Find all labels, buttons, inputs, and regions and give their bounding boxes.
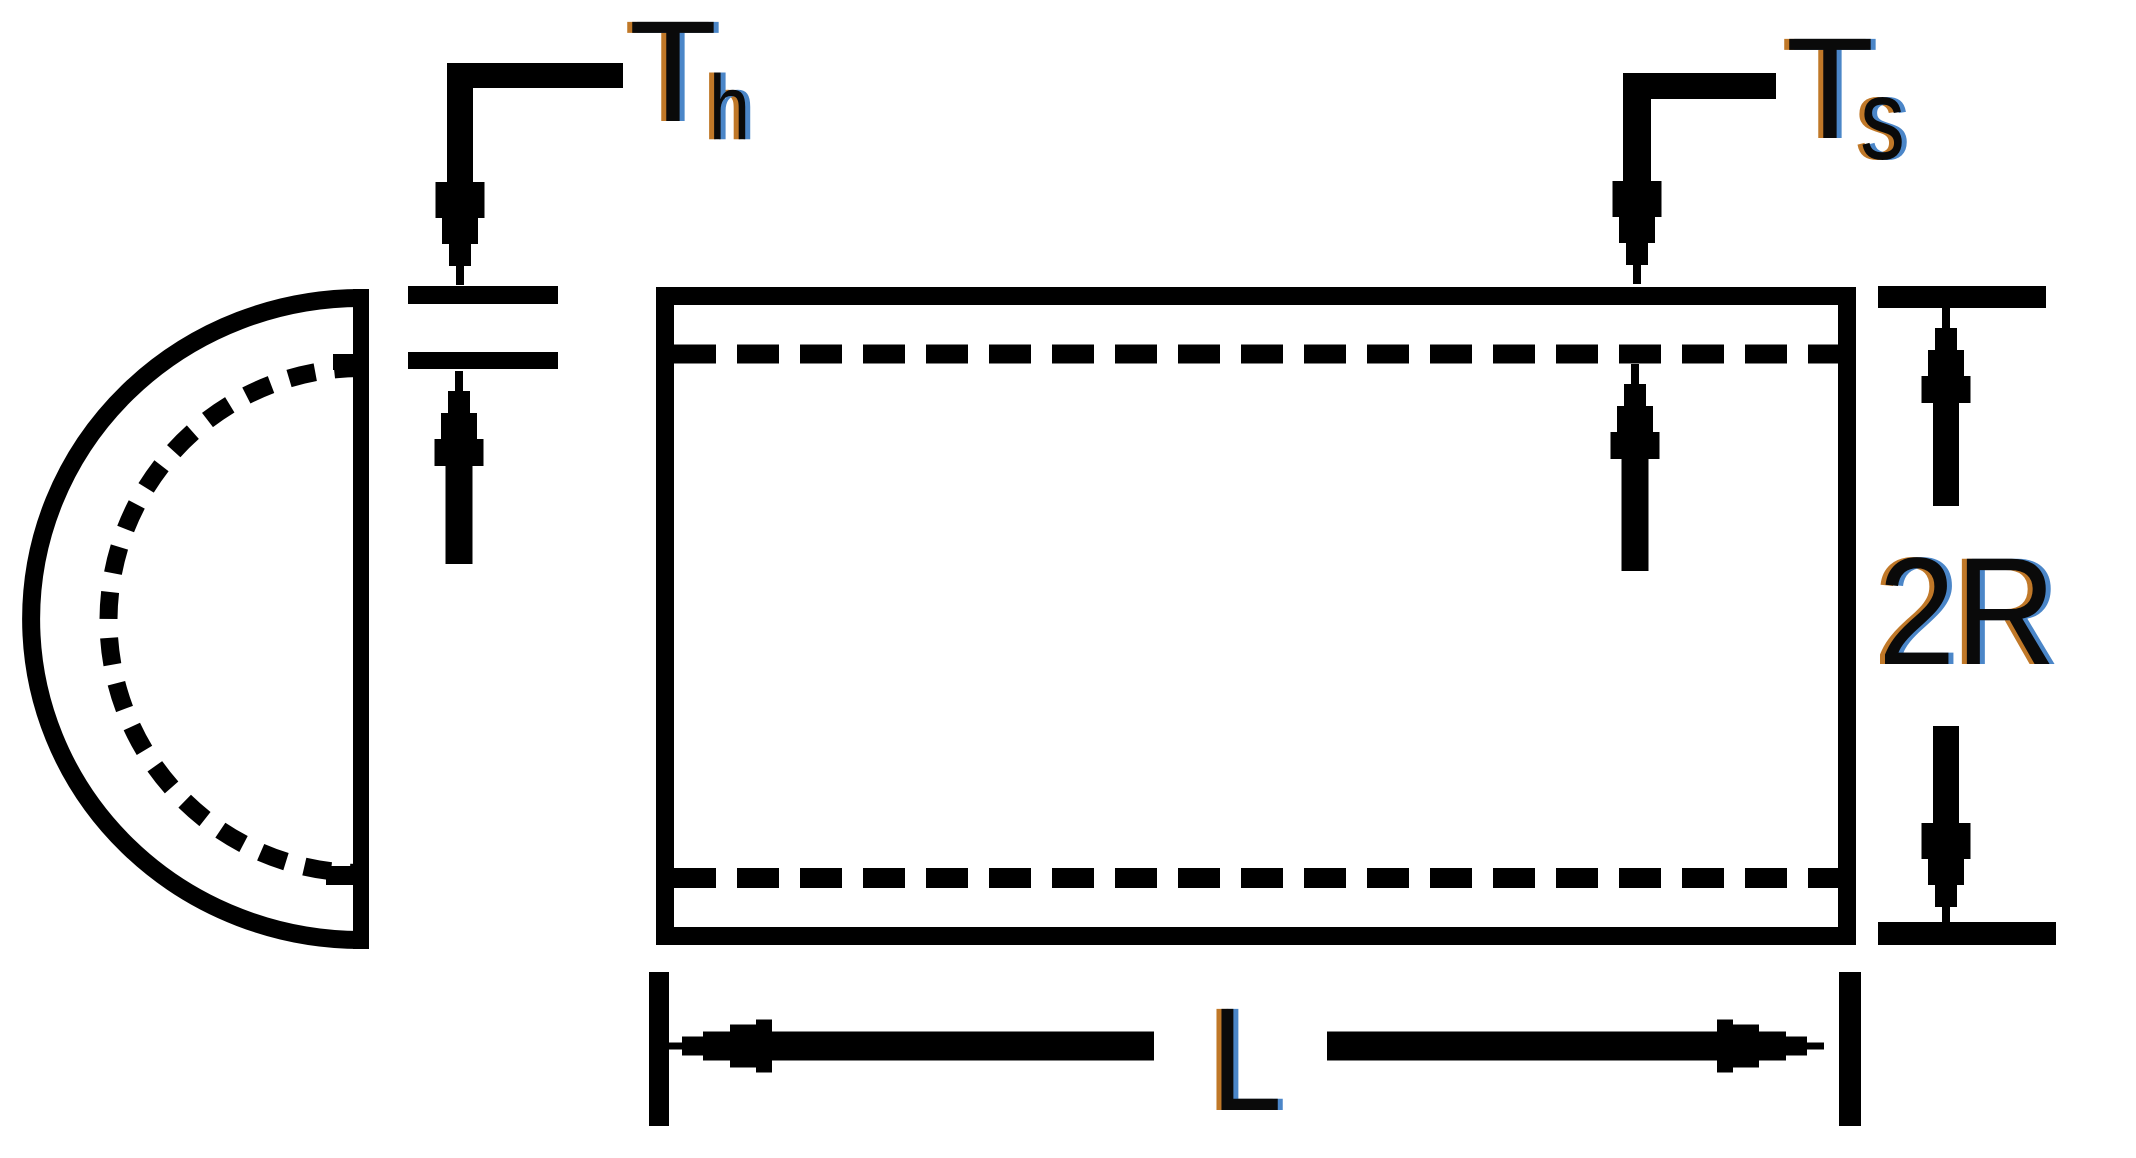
head outer arc	[31, 298, 361, 940]
Th leader down arrow	[436, 182, 485, 285]
Ts leader line	[1623, 73, 1776, 181]
label L	[1206, 978, 1287, 1142]
shell top inner dashed line (wall thickness Ts)	[674, 345, 1838, 364]
shell outline rectangle	[665, 296, 1847, 936]
L left tick	[649, 972, 669, 1126]
Ts up arrow inside shell	[1611, 364, 1660, 571]
svg-text:2R: 2R	[1878, 526, 2056, 697]
Th leader line	[447, 63, 623, 182]
label Th	[624, 0, 755, 159]
L right tick	[1839, 972, 1861, 1126]
label 2R	[1873, 526, 2061, 697]
svg-text:L: L	[1211, 978, 1282, 1142]
shell bottom inner dashed line	[674, 868, 1838, 888]
svg-text:s: s	[1860, 56, 1905, 184]
2R up arrow	[1922, 308, 1971, 506]
Th thickness bar lower	[408, 352, 558, 369]
L left arrow	[665, 1020, 1154, 1073]
2R top extension line	[1878, 286, 2046, 308]
2R down arrow	[1922, 726, 1971, 926]
L right arrow	[1327, 1020, 1824, 1073]
head flat edge	[353, 289, 369, 949]
Th thickness bar upper	[408, 286, 558, 304]
svg-text:h: h	[709, 57, 750, 159]
label Ts	[1781, 8, 1910, 184]
Ts leader down arrow	[1613, 181, 1662, 284]
2R bottom extension line	[1878, 922, 2056, 945]
head inner dashed arc (wall thickness Th)	[109, 354, 370, 885]
Th up arrow below bars	[435, 371, 484, 564]
